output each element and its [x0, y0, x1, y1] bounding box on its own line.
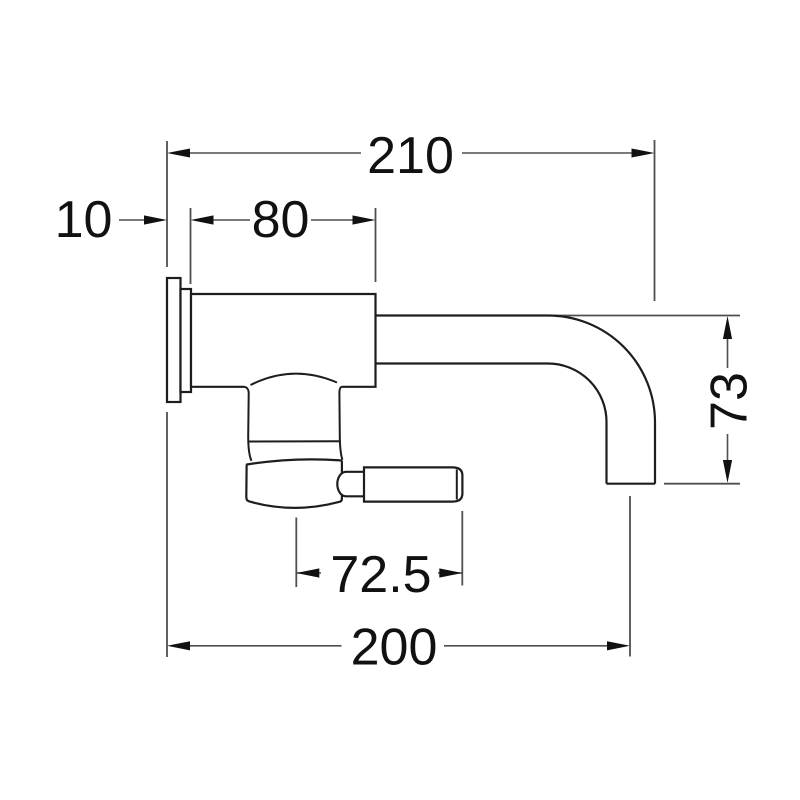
- inner flange collar: [181, 289, 192, 392]
- extension line wall plane lower (x=167): [166, 412, 168, 657]
- arrowhead 72.5 left: [296, 568, 319, 577]
- arrowhead 210 right: [632, 149, 655, 158]
- extension line valve centre (x=296.3): [295, 518, 297, 588]
- dimension line 200: [189, 645, 608, 647]
- wall flange plate: [167, 278, 181, 402]
- svg-text:80: 80: [252, 191, 310, 249]
- extension line spout top for 73: [550, 315, 740, 317]
- neck right edge: [339, 387, 342, 460]
- neck left edge: [245, 387, 252, 461]
- spout outer profile: [376, 316, 656, 484]
- dimension line 80: [212, 219, 354, 221]
- dimension line 10: [119, 219, 146, 221]
- cartridge dome arc: [251, 374, 338, 385]
- extension line handle end (x=462.3): [461, 511, 463, 586]
- svg-text:200: 200: [351, 619, 438, 677]
- extension line wall plane upper (x=167): [166, 141, 168, 267]
- valve body outline: [191, 294, 376, 387]
- handle end cap line: [456, 470, 458, 500]
- handle stem: [337, 472, 364, 497]
- spout mouth: [607, 483, 656, 485]
- spout inner profile: [376, 364, 607, 484]
- extension line spout outer (x=654.5): [654, 140, 656, 301]
- extension line body left (x=190.5): [190, 208, 192, 284]
- dimension line 72.5: [296, 572, 462, 574]
- svg-text:73: 73: [701, 372, 759, 430]
- dimension line 210: [189, 152, 632, 154]
- valve cylinder: [246, 459, 342, 508]
- svg-text:210: 210: [367, 127, 454, 185]
- arrowhead 72.5 right: [439, 568, 462, 577]
- arrowhead 200 right: [607, 641, 630, 650]
- arrowhead 200 left: [167, 641, 190, 650]
- neck separator line: [248, 440, 340, 442]
- extension line spout mouth for 73: [664, 483, 740, 485]
- arrowhead 80 left: [191, 215, 214, 224]
- arrowhead 73 bottom: [723, 460, 732, 483]
- handle bar: [364, 467, 462, 501]
- arrowhead 73 top: [723, 316, 732, 339]
- extension line body right (x=375.5): [375, 208, 377, 282]
- arrowhead 210 left: [167, 149, 190, 158]
- arrowhead 80 right: [353, 215, 376, 224]
- svg-text:72.5: 72.5: [330, 546, 431, 604]
- arrowhead 10: [144, 215, 167, 224]
- svg-text:10: 10: [55, 191, 113, 249]
- extension line spout centre (x=630): [629, 496, 631, 657]
- dimension line 73: [727, 338, 729, 461]
